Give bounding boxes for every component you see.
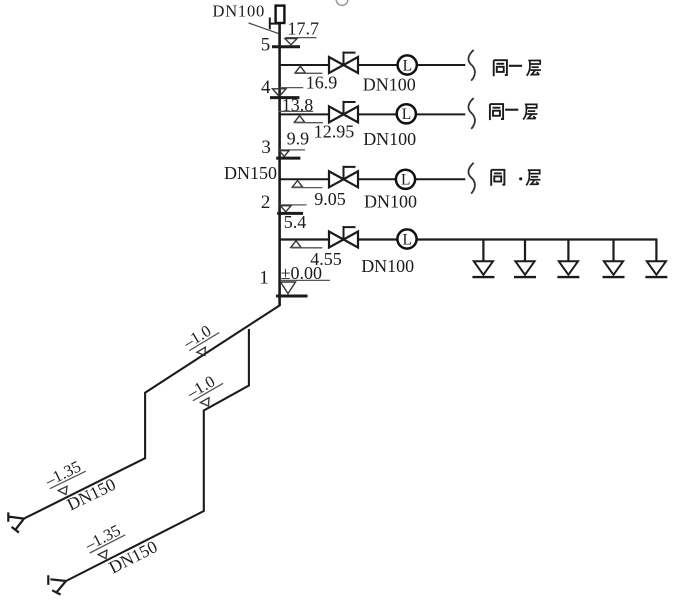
- svg-text:9.9: 9.9: [287, 129, 310, 149]
- floor 1 tick: [276, 295, 308, 298]
- sprinkler stub 1: [482, 241, 484, 262]
- svg-text:–1.35: –1.35: [41, 457, 84, 491]
- riser pipe: [278, 23, 281, 306]
- valve V1: [329, 52, 358, 74]
- svg-text:DN100: DN100: [363, 129, 416, 149]
- svg-text:DN150: DN150: [224, 163, 277, 183]
- floor 3 datum line: [280, 149, 305, 151]
- branch 1 elevation marker: [295, 66, 305, 73]
- sprinkler stub 2: [524, 241, 526, 262]
- sprinkler head 1: [472, 261, 494, 277]
- svg-text:5.4: 5.4: [284, 212, 307, 232]
- marker -1.0 on pipe A: [179, 318, 226, 362]
- svg-text:–1.0: –1.0: [179, 321, 214, 353]
- flow indicator L3: [396, 170, 415, 189]
- vent branch stub: [270, 23, 280, 25]
- floor 4 datum line: [280, 87, 304, 89]
- svg-text:16.9: 16.9: [306, 73, 338, 93]
- marker -1.35 and DN150 on pipe B: [81, 509, 161, 583]
- 0.00 underline: [281, 279, 330, 281]
- text same-floor 3: [491, 170, 504, 186]
- svg-text:DN150: DN150: [64, 474, 119, 515]
- sprinkler stub 3: [567, 241, 569, 262]
- floor 3 elevation triangle: [279, 151, 289, 157]
- leader line: [249, 23, 279, 34]
- sprinkler head 5: [645, 261, 667, 277]
- supply pipe B run: [66, 329, 249, 581]
- floor 2 tick: [277, 212, 303, 215]
- break brace 2: [468, 98, 474, 129]
- svg-text:12.95: 12.95: [314, 122, 355, 142]
- branch 3 pipe: [280, 178, 466, 180]
- sprinkler head 2: [514, 261, 536, 277]
- svg-text:17.7: 17.7: [288, 19, 320, 39]
- valve V3: [329, 166, 358, 188]
- branch 3 elevation marker: [292, 181, 302, 188]
- floor 5 elevation triangle: [285, 39, 297, 45]
- svg-text:1: 1: [259, 268, 269, 289]
- supply connection fork 2: [48, 575, 66, 594]
- floor 5 datum line: [285, 37, 316, 39]
- break brace 3: [468, 163, 474, 194]
- branch 4 elevation marker: [291, 241, 301, 248]
- floor 2 elevation triangle: [280, 206, 291, 212]
- svg-text:9.05: 9.05: [314, 189, 346, 209]
- 13.8 underline: [278, 110, 313, 112]
- flow indicator L4: [397, 229, 416, 248]
- svg-text:4: 4: [261, 77, 271, 98]
- svg-text:5: 5: [261, 34, 271, 55]
- marker -1.0 on pipe B: [183, 368, 230, 412]
- svg-text:–1.35: –1.35: [81, 521, 124, 555]
- text same-floor 1: [494, 60, 507, 76]
- svg-text:2: 2: [261, 192, 271, 213]
- top circle (drawing bubble): [336, 0, 348, 5]
- floor 1 elevation triangle: [281, 282, 296, 294]
- svg-text:DN100: DN100: [361, 256, 414, 276]
- svg-text:–1.0: –1.0: [183, 372, 218, 403]
- middle dot: [519, 177, 522, 180]
- branch 2 elevation marker: [294, 116, 304, 123]
- svg-text:DN100: DN100: [213, 2, 266, 21]
- svg-text:3: 3: [261, 137, 271, 158]
- text same-floor 2: [490, 104, 503, 120]
- branch 4 pipe: [280, 240, 657, 262]
- valve V2: [329, 101, 358, 123]
- valve V4: [329, 226, 358, 248]
- flow indicator L1: [398, 55, 417, 74]
- marker -1.35 and DN150 on pipe A: [41, 446, 119, 519]
- sprinkler head 4: [603, 261, 625, 277]
- automatic air vent valve body: [276, 6, 285, 23]
- floor 4 tick: [270, 96, 299, 99]
- svg-text:DN100: DN100: [363, 74, 416, 94]
- floor 5 tick: [272, 45, 300, 48]
- supply pipe A run: [24, 305, 280, 519]
- branch 1 pipe: [280, 64, 466, 66]
- floor 2 datum line: [280, 204, 307, 206]
- sprinkler head 3: [557, 261, 579, 277]
- break brace 1: [468, 50, 474, 81]
- flow indicator L2: [397, 104, 416, 123]
- sprinkler stub 4: [612, 241, 614, 262]
- branch 2 pipe: [280, 113, 466, 115]
- svg-text:DN100: DN100: [364, 192, 417, 212]
- floor 3 tick: [276, 157, 300, 160]
- supply connection fork 1: [8, 512, 24, 532]
- vent stub end tick: [269, 18, 271, 30]
- floor 4 elevation triangle: [273, 89, 287, 97]
